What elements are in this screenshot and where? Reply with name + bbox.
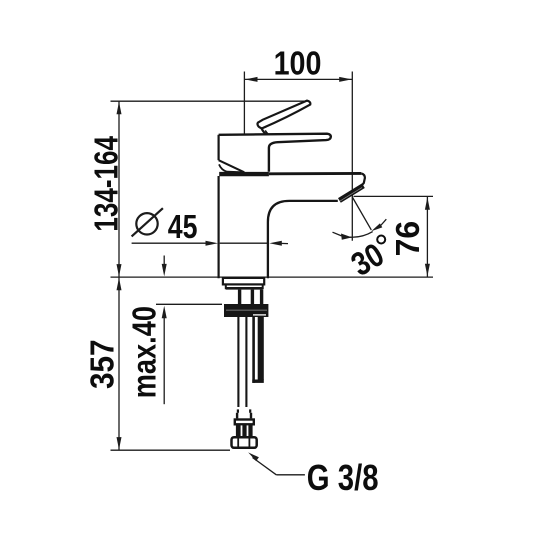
dimension 134-164 line (118, 101, 120, 277)
svg-text:357: 357 (84, 339, 121, 389)
notch diagonal 1 (219, 160, 245, 172)
arrow 76 bottom (425, 264, 430, 277)
svg-text:76: 76 (390, 221, 427, 257)
arrow 100 right (339, 77, 352, 82)
hose lower section tier 2 (236, 413, 238, 419)
wire: mounting surface reference line (111, 276, 434, 278)
lever neck (262, 129, 267, 135)
hose right tube (dark) (252, 317, 255, 383)
base plinth 2 (226, 284, 263, 288)
dimension 357 line (118, 277, 120, 450)
base plinth 1 (223, 278, 264, 285)
diameter 45 symbol (136, 213, 157, 234)
spout tip outline (361, 173, 365, 185)
angle arc (350, 232, 373, 238)
arrow 134-164 top (117, 102, 122, 115)
dimension max.40 (163, 256, 165, 267)
wire: bottom reference line (357 lower) (111, 449, 231, 451)
body top slot (thick) (219, 172, 269, 176)
svg-text:max.40: max.40 (127, 306, 163, 398)
connector nut 2 (235, 420, 254, 425)
svg-text:G 3/8: G 3/8 (307, 457, 379, 498)
base assembly (223, 278, 269, 448)
knurl section (236, 425, 253, 436)
shank bars (3) (238, 290, 241, 305)
hose lower section tier 1 (237, 409, 239, 412)
wire: extension line 100 left (243, 72, 245, 135)
label 30deg ring (377, 236, 385, 244)
mounting nut (black block) (224, 304, 268, 317)
leader dia45 (132, 242, 208, 244)
svg-text:45: 45 (168, 209, 198, 245)
arrow 134-164 bottom (117, 264, 122, 277)
hose left tube (237, 317, 239, 407)
svg-text:134-164: 134-164 (89, 136, 126, 232)
arrow arc right (371, 223, 382, 231)
wire: extension line 76 top (354, 195, 434, 197)
wire: extension line 100 right / angle vertical (351, 72, 353, 241)
hex connector G3/8 (232, 437, 257, 448)
arrow 76 top (425, 197, 430, 210)
column right edge and spout underside (268, 201, 338, 278)
column left edge (218, 176, 220, 278)
lever blade (258, 101, 311, 129)
faucet outline (219, 101, 365, 279)
dimension 76 line (426, 197, 428, 277)
cap top and right side (219, 134, 331, 172)
arrow 357 top (117, 278, 122, 291)
angle 30deg diagonal side (352, 197, 371, 230)
wire: top reference extension line (134-164 upper) (111, 100, 307, 102)
cap left edge (218, 135, 220, 160)
dimension 100 line (244, 78, 352, 80)
arrow arc left (341, 234, 352, 240)
svg-text:100: 100 (274, 44, 322, 81)
arrow 100 left (245, 77, 258, 82)
arrow 357 bottom (117, 437, 122, 450)
leader G 3/8 (248, 452, 259, 461)
aerator band (339, 186, 363, 201)
notch diagonal 2 (219, 164, 243, 172)
spout top edge (269, 172, 361, 175)
